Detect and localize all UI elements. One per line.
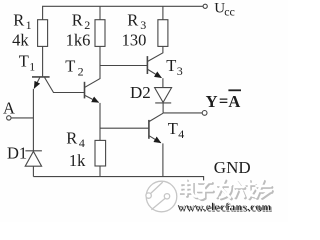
svg-text:=: =: [219, 92, 228, 111]
svg-text:1k6: 1k6: [66, 30, 91, 49]
watermark logo diagonal 2: [151, 199, 165, 210]
svg-text:1: 1: [29, 60, 35, 74]
svg-text:T: T: [166, 56, 176, 75]
resistor R3 body: [158, 20, 168, 47]
svg-text:4: 4: [79, 136, 85, 150]
svg-text:D2: D2: [130, 83, 151, 102]
terminal Ucc circle: [203, 4, 207, 8]
transistor T4 collector to output node: [149, 113, 163, 121]
resistor R4 body: [95, 140, 106, 166]
transistor T4 emitter with arrow: [149, 136, 161, 143]
label R2: [72, 11, 91, 33]
transistor T2 emitter with arrow: [85, 95, 99, 102]
transistor T3 collector to R3: [148, 46, 163, 61]
wire T3 emitter to D2: [162, 78, 164, 87]
label T3: [166, 56, 183, 78]
wire R1 bottom to T1 base: [42, 46, 44, 76]
wire T4 emitter to ground rail: [162, 143, 164, 176]
transistor T3 base bar: [146, 56, 148, 74]
watermark url www.elecfans.com: [177, 200, 272, 214]
wire R2 top lead: [99, 6, 101, 19]
svg-text:R: R: [127, 11, 138, 30]
watermark logo circle: [146, 181, 177, 212]
svg-text:www.elecfans.com: www.elecfans.com: [177, 200, 271, 213]
svg-text:4k: 4k: [12, 30, 29, 49]
svg-text:4: 4: [178, 127, 184, 141]
svg-text:A: A: [3, 99, 15, 118]
overline of A: [228, 89, 241, 91]
svg-text:D1: D1: [7, 144, 27, 163]
wire T2 emitter node to T4 base: [100, 127, 149, 129]
wire input A to vertical: [11, 117, 33, 119]
wire R4 bottom to ground rail: [99, 166, 101, 177]
svg-text:T: T: [19, 52, 29, 71]
watermark chinese characters (pseudo-glyphs): [180, 180, 272, 200]
transistor T2 collector to R2: [85, 46, 100, 87]
wire T1 emitter down to input node and D1: [32, 89, 34, 151]
output terminal Y circle: [202, 111, 207, 116]
input terminal A circle: [7, 116, 11, 120]
transistor T1 collector to T2 base: [45, 78, 85, 93]
svg-text:A: A: [228, 92, 240, 111]
svg-text:cc: cc: [224, 4, 235, 18]
label output Y = A-bar: [206, 90, 241, 111]
wire T2 emitter down to R4 top: [99, 103, 101, 140]
svg-text:T: T: [168, 119, 178, 138]
svg-text:2: 2: [78, 65, 84, 79]
label R3: [127, 11, 146, 33]
label R1: [13, 11, 31, 33]
wire ground rail: [33, 177, 203, 181]
resistor R1 body: [38, 20, 48, 47]
resistor R2 body: [95, 20, 105, 47]
wire D1 anode to ground rail: [32, 166, 34, 176]
transistor T4 base bar: [148, 120, 150, 139]
watermark logo node circle 2: [164, 194, 169, 199]
diode D1 triangle: [25, 151, 41, 166]
transistor T3 emitter with arrow: [148, 69, 162, 77]
wire T2 collector node to T3 base: [100, 65, 147, 67]
svg-text:3: 3: [177, 64, 183, 78]
label R4: [66, 128, 85, 150]
wire output node to terminal Y: [163, 112, 202, 114]
transistor T2 base bar: [84, 82, 86, 99]
watermark logo node circle 1: [146, 193, 151, 198]
label T2: [65, 57, 83, 79]
label Ucc: [214, 1, 235, 19]
svg-text:R: R: [66, 128, 77, 147]
wire Vcc top rail: [43, 6, 203, 19]
wire R3 top lead: [162, 6, 164, 19]
svg-text:GND: GND: [214, 158, 251, 177]
label T1: [19, 52, 36, 74]
diode D2 triangle: [155, 88, 172, 103]
diode D1 cathode bar: [25, 150, 42, 152]
svg-text:130: 130: [122, 30, 147, 49]
transistor T1 emitter with arrow: [34, 78, 40, 89]
diode D2 cathode bar: [155, 102, 171, 104]
watermark logo diagonal 1: [151, 182, 163, 193]
label T4: [168, 119, 185, 141]
svg-text:Y: Y: [206, 92, 218, 111]
svg-text:R: R: [72, 11, 83, 30]
transistor T1 base bar: [32, 76, 50, 78]
wire D2 to output node: [162, 103, 164, 113]
svg-text:1k: 1k: [69, 151, 86, 170]
svg-text:T: T: [65, 57, 75, 76]
svg-text:R: R: [13, 11, 24, 30]
